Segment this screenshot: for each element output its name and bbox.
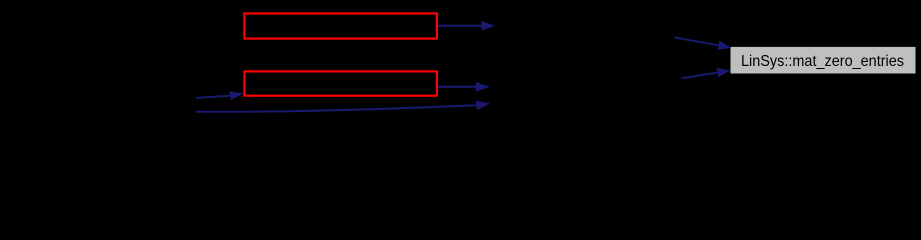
node U1: LinSys::mat_zero_entries (grey current node) xyxy=(731,47,916,74)
node box1 (red, truncated caller, label hidden) xyxy=(244,13,437,38)
edge E3: hidden far-left node -> hidden mid-lower node (long curved wire + arrowhead) xyxy=(196,101,491,112)
edge E1: box1 -> hidden mid-upper node (wire + arrowhead) xyxy=(438,21,496,30)
svg-text:LinSys::mat_zero_entries: LinSys::mat_zero_entries xyxy=(741,53,904,70)
edge E2: box2 -> hidden mid-lower node (wire + arrowhead) xyxy=(438,82,490,91)
node box2 (red, truncated caller, label hidden) xyxy=(244,71,437,95)
edge E4: hidden far-left node -> box2 (curved wire + arrowhead) xyxy=(196,91,244,100)
edge E6: hidden mid-lower node -> grey node (wire + arrowhead) xyxy=(682,68,731,78)
edge E5: hidden mid-upper node -> grey node (wire + arrowhead) xyxy=(674,37,732,50)
